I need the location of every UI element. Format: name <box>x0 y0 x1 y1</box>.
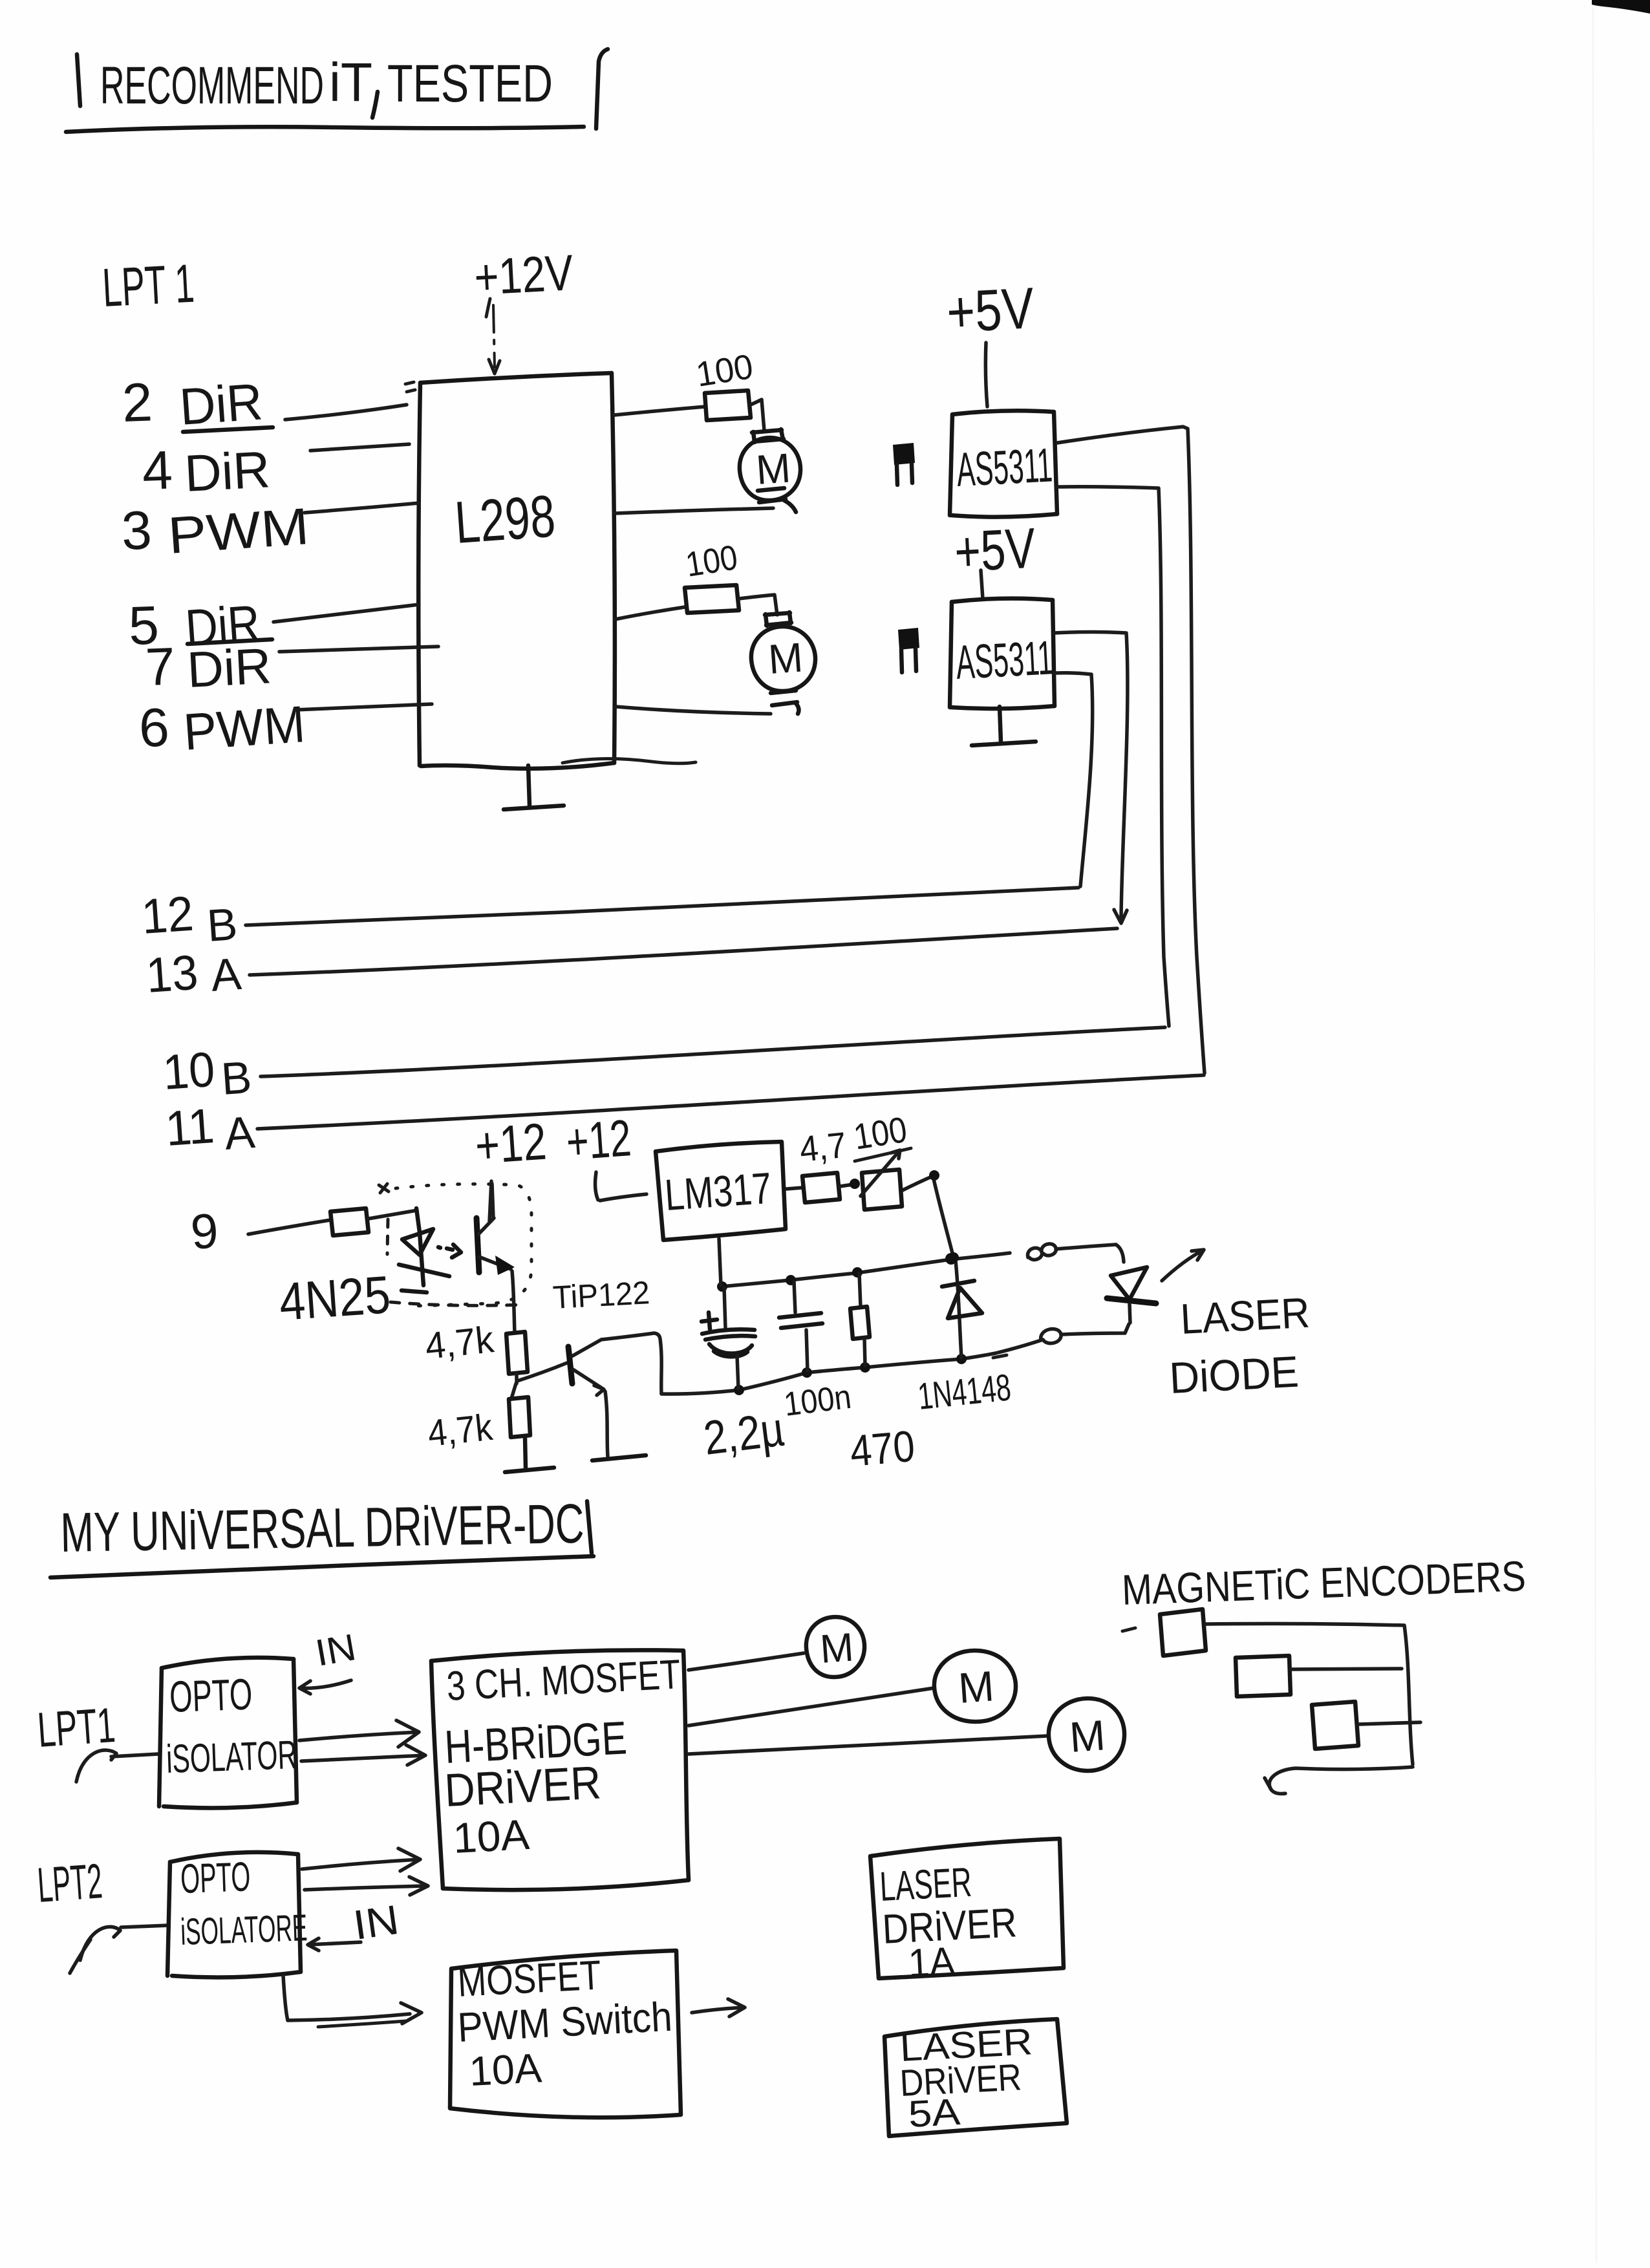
svg-text:TESTED: TESTED <box>387 54 553 113</box>
label LPT2 <box>36 1854 104 1913</box>
rail top (laser supply) <box>717 1244 1116 1292</box>
label IN lower <box>308 1896 402 1951</box>
label MAGNETIC ENCODERS <box>1121 1552 1527 1631</box>
svg-text:100: 100 <box>683 538 740 584</box>
label 10 B <box>161 1042 253 1104</box>
motor M4 <box>934 1651 1016 1722</box>
label +12 second <box>564 1109 647 1201</box>
svg-text:MY UNiVERSAL DRiVER-DC: MY UNiVERSAL DRiVER-DC <box>60 1493 585 1564</box>
wire 12B <box>246 888 1078 925</box>
svg-text:AS5311: AS5311 <box>955 438 1053 497</box>
encoder square 1 <box>1160 1609 1206 1656</box>
potentiometer 100 <box>851 1109 911 1210</box>
svg-text:10A: 10A <box>468 2044 543 2095</box>
optoisolator box 1 <box>159 1658 297 1808</box>
title underline <box>66 127 584 132</box>
label LPT1 lower <box>36 1698 117 1758</box>
resistor R9 <box>330 1208 417 1236</box>
wire pin5 <box>273 604 419 622</box>
IC AS5311 #1 <box>950 411 1057 517</box>
wire pin6 <box>295 704 432 710</box>
opto phototransistor <box>477 1184 515 1332</box>
svg-text:12: 12 <box>140 886 195 945</box>
pin 7 DIR(bar) label <box>144 637 272 698</box>
ground below L298 <box>504 765 564 809</box>
svg-text:4,7k: 4,7k <box>426 1406 495 1455</box>
capacitor 100n <box>779 1281 853 1424</box>
pin 3 PWM label <box>120 497 310 564</box>
ground below 4,7k <box>505 1437 554 1472</box>
resistor 4,7k lower <box>426 1397 530 1455</box>
wires hbridge to motors <box>689 1653 1047 1754</box>
svg-text:LASER: LASER <box>1179 1289 1311 1343</box>
wire pin9 <box>248 1220 330 1234</box>
svg-text:DRiVER: DRiVER <box>444 1757 603 1817</box>
wire AS5311#1 out A (long right loop) <box>1057 427 1205 1073</box>
pin 6 PWM label <box>138 695 306 761</box>
svg-text:+12: +12 <box>473 1113 548 1175</box>
pin 4 DIR(bar) label <box>141 427 273 502</box>
arrows opto1 to hbridge <box>299 1720 425 1765</box>
svg-text:2,2µ: 2,2µ <box>701 1402 787 1464</box>
svg-text:DiR: DiR <box>183 440 271 502</box>
ground below Q1 <box>592 1455 646 1460</box>
svg-text:M: M <box>819 1625 855 1672</box>
svg-text:4,7: 4,7 <box>798 1124 848 1170</box>
laser diode symbol <box>1107 1245 1156 1323</box>
label IN upper <box>299 1626 359 1694</box>
wire opto2 to pwm switch <box>283 1976 422 2027</box>
label LPT1 <box>101 253 196 318</box>
magnet symbol near AS5311#1 <box>893 443 915 485</box>
title text I RECOMMEND IT, TESTED <box>77 52 553 118</box>
svg-text:AS5311: AS5311 <box>954 630 1054 689</box>
resistor 470 <box>848 1274 917 1476</box>
wire pin3 <box>305 503 419 513</box>
IC AS5311 #2 <box>950 599 1055 709</box>
encoder square 2 <box>1236 1656 1291 1696</box>
svg-text:6: 6 <box>138 696 170 758</box>
wire Q1 collector to rail <box>601 1333 661 1394</box>
svg-text:11: 11 <box>164 1098 216 1157</box>
svg-text:RECOMMEND: RECOMMEND <box>100 56 324 115</box>
svg-text:M: M <box>755 444 792 493</box>
svg-text:DiODE: DiODE <box>1168 1347 1300 1403</box>
svg-text:M: M <box>1068 1711 1107 1761</box>
capacitor 2,2u <box>701 1288 787 1465</box>
svg-text:PWM: PWM <box>182 695 307 761</box>
svg-text:10A: 10A <box>452 1810 531 1862</box>
motor M5 <box>1049 1698 1124 1771</box>
svg-text:100: 100 <box>693 347 755 394</box>
motor M1 <box>740 429 800 512</box>
svg-text:DiR: DiR <box>178 372 264 436</box>
heading MY UNIVERSAL DRIVER-DC <box>60 1493 585 1564</box>
svg-text:M: M <box>957 1662 996 1712</box>
+12V supply label <box>473 244 574 317</box>
svg-text:OPTO: OPTO <box>180 1853 251 1902</box>
svg-text:IN: IN <box>350 1896 402 1949</box>
wire 11A <box>257 1075 1204 1129</box>
svg-text:5A: 5A <box>907 2091 961 2135</box>
heading bracket <box>587 1501 592 1553</box>
opto LED <box>399 1208 449 1292</box>
label LASER <box>1179 1289 1311 1343</box>
svg-text:OPTO: OPTO <box>169 1670 253 1722</box>
svg-text:13: 13 <box>144 945 200 1003</box>
wire pin2 <box>285 405 407 420</box>
wire 13A <box>250 928 1117 975</box>
optoisolator box 2 <box>167 1852 308 1978</box>
resistor R1 100 <box>614 347 764 431</box>
svg-text:iT: iT <box>329 52 372 112</box>
wire +5V to AS5311#1 <box>985 343 987 407</box>
arrow pwm switch out <box>692 1999 745 2017</box>
svg-text:+12V: +12V <box>473 244 574 306</box>
wire M1 bottom return <box>615 508 773 513</box>
svg-text:+5V: +5V <box>945 276 1036 345</box>
svg-text:IN: IN <box>312 1626 359 1674</box>
svg-text:4N25: 4N25 <box>277 1265 392 1332</box>
wire pin7 <box>279 647 438 652</box>
svg-text:470: 470 <box>848 1422 917 1476</box>
optocoupler 4N25 dashed outline <box>379 1184 531 1306</box>
scanner black mark top-right corner <box>1592 0 1650 2263</box>
motor M2 <box>751 612 815 714</box>
AS5311#2 ground stub <box>972 707 1036 745</box>
magnet symbol near AS5311#2 <box>898 628 919 672</box>
svg-text:100n: 100n <box>782 1378 853 1424</box>
svg-text:LPT 1: LPT 1 <box>101 253 196 318</box>
laser driver 1A box <box>870 1839 1064 1986</box>
diode 1N4148 <box>916 1261 1013 1418</box>
svg-text:2: 2 <box>121 371 153 433</box>
mosfet pwm switch box <box>450 1951 681 2117</box>
label 11 A <box>164 1098 257 1159</box>
svg-text:LM317: LM317 <box>663 1164 773 1220</box>
motor M3 <box>806 1617 864 1677</box>
laser emission arrow <box>1162 1250 1204 1281</box>
wire M2 bottom return <box>616 707 771 714</box>
encoder wires <box>1206 1623 1420 1793</box>
laser driver 5A box <box>884 2019 1067 2136</box>
opto coupling arrow <box>438 1245 461 1257</box>
svg-text:LPT2: LPT2 <box>36 1854 104 1913</box>
svg-text:TiP122: TiP122 <box>552 1274 651 1316</box>
transistor Q1 TIP122 <box>568 1340 608 1457</box>
regulator LM317 box <box>656 1142 786 1240</box>
rail bottom (laser return) <box>661 1324 1129 1395</box>
wire LM317 adj down <box>719 1239 721 1285</box>
svg-text:iSOLATORE: iSOLATORE <box>180 1907 308 1953</box>
pin 9 label <box>189 1203 220 1260</box>
svg-text:DiR: DiR <box>186 637 272 698</box>
node base junction <box>511 1363 567 1398</box>
svg-text:MAGNETiC ENCODERS: MAGNETiC ENCODERS <box>1121 1552 1527 1614</box>
+5V label (upper) <box>945 276 1036 345</box>
hbridge driver box <box>431 1650 689 1890</box>
svg-text:A: A <box>223 1107 257 1159</box>
resistor 4,7k upper <box>423 1318 528 1374</box>
svg-text:M: M <box>767 634 804 683</box>
encoder square 3 <box>1312 1702 1358 1749</box>
svg-text:1N4148: 1N4148 <box>916 1366 1013 1418</box>
IC U1 L298 box <box>405 373 696 769</box>
wire AS5311#1 out B <box>1057 487 1169 1026</box>
label +12 first <box>473 1113 548 1221</box>
label DIODE <box>1168 1347 1300 1403</box>
wire AS5311#2 out C <box>1055 632 1128 924</box>
wire LPT2 to opto2 <box>121 1925 168 1927</box>
pin 2 DIR label <box>121 371 264 436</box>
resistor R2 100 <box>615 538 777 619</box>
wire LPT1 to opto1 <box>111 1754 158 1757</box>
+5V label (lower) <box>953 516 1037 584</box>
label TIP122 <box>552 1274 651 1316</box>
svg-text:4: 4 <box>141 439 173 501</box>
svg-text:9: 9 <box>189 1203 220 1260</box>
svg-text:3 CH. MOSFET: 3 CH. MOSFET <box>445 1651 681 1709</box>
svg-text:A: A <box>209 948 243 1001</box>
svg-text:iSOLATOR: iSOLATOR <box>166 1733 297 1782</box>
svg-text:3: 3 <box>120 499 153 561</box>
svg-text:L298: L298 <box>453 483 557 556</box>
wire 10B <box>261 1027 1165 1076</box>
label 4N25 <box>277 1265 392 1332</box>
svg-text:4,7k: 4,7k <box>423 1318 497 1367</box>
wire +5V to AS5311#2 <box>981 570 983 599</box>
arrows opto2 to hbridge <box>302 1848 428 1895</box>
svg-text:1A: 1A <box>907 1939 956 1986</box>
pin 5 DIR label <box>127 594 262 657</box>
svg-text:+12: +12 <box>564 1109 633 1171</box>
svg-text:B: B <box>206 899 239 951</box>
svg-text:PWM: PWM <box>166 497 311 564</box>
heading underline <box>50 1556 594 1578</box>
title right bracket <box>596 49 608 129</box>
svg-text:+5V: +5V <box>953 516 1037 584</box>
wire pin4 <box>310 444 409 451</box>
svg-text:10: 10 <box>161 1042 217 1100</box>
wire R100 to rail node <box>903 1170 959 1263</box>
LPT1 hook <box>76 1750 116 1782</box>
svg-text:7: 7 <box>144 637 176 697</box>
label 13 A <box>144 945 243 1003</box>
resistor 4,7 series <box>786 1124 860 1203</box>
svg-text:B: B <box>220 1052 253 1104</box>
+12V dashed arrow to L298 <box>489 305 500 374</box>
LPT2 hook <box>70 1927 120 1973</box>
label 12 B <box>140 886 239 951</box>
wire AS5311#2 out D <box>1055 673 1093 886</box>
